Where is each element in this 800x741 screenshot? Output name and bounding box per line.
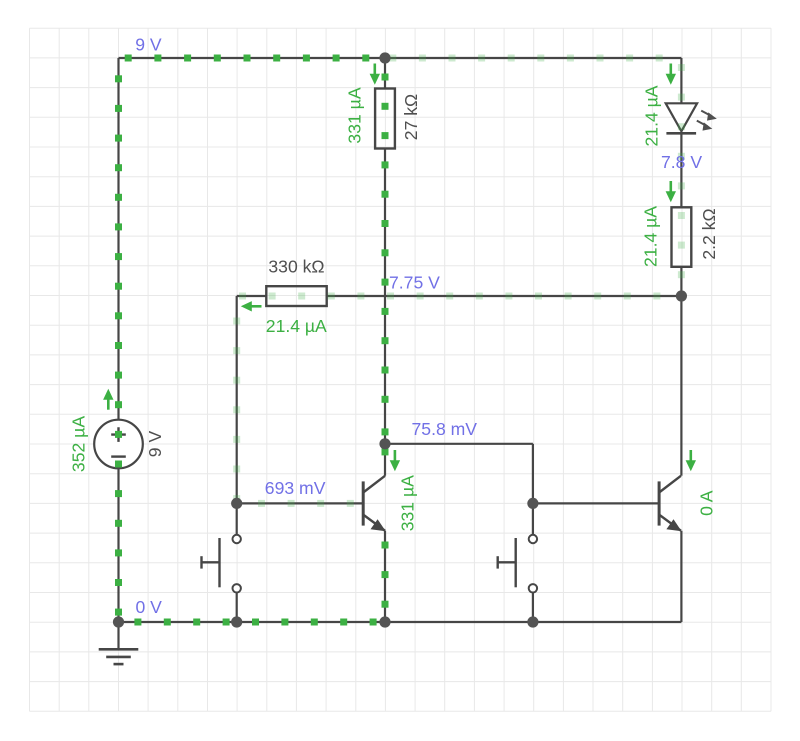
resistor R2 330k body xyxy=(266,286,326,306)
wire switch1 top lead xyxy=(236,503,238,534)
svg-text:21.4 µA: 21.4 µA xyxy=(266,316,327,336)
current arrow into R1 27k (down) xyxy=(370,64,380,85)
wire switch1 bottom lead xyxy=(236,593,238,622)
wire Q1 emitter to bottom rail xyxy=(384,531,386,622)
LED D1 cathode bar xyxy=(666,132,696,135)
svg-text:331 µA: 331 µA xyxy=(345,87,365,143)
wire 75.8mV net vertical to Q2 base node xyxy=(532,444,534,504)
current arrow at Q2 collector (down) xyxy=(686,450,696,471)
node junction top rail / 27k xyxy=(379,52,390,63)
wire 75.8mV net horizontal xyxy=(385,443,533,445)
wire current dots (faint) LED / 2.2k branch xyxy=(678,64,685,278)
wire collector node down to Q1 collector xyxy=(384,444,386,476)
current arrow into R3 2.2k (down) xyxy=(666,181,676,202)
current arrow into LED (down) xyxy=(666,64,676,85)
current arrow through V1 (up) xyxy=(103,389,113,410)
ground symbol xyxy=(117,622,119,649)
wire switch2 top lead xyxy=(532,503,534,534)
node junction ground xyxy=(113,616,124,627)
transistor Q2 (NPN) xyxy=(659,476,682,531)
wire node A down to Q2 collector xyxy=(680,296,682,476)
wire LED cathode to 2.2k xyxy=(680,133,682,207)
wire switch2 bottom lead xyxy=(532,593,534,622)
wire 27k top lead xyxy=(384,58,386,89)
LED D1 triangle xyxy=(666,103,697,131)
node junction 75.8mV / Q1 collector xyxy=(379,438,390,449)
svg-text:693 mV: 693 mV xyxy=(265,478,326,498)
push switch S1 (open) xyxy=(202,535,241,593)
wire current dots (bright) left rail xyxy=(115,75,122,615)
wire bottom rail ground net xyxy=(119,621,682,623)
wire current dots (faint) Q1 base wire xyxy=(258,500,354,507)
wire current dots (faint) top rail right of junction xyxy=(389,55,662,62)
voltage source V1 plus sign xyxy=(111,427,126,442)
voltage source V1 9V circle xyxy=(94,420,143,469)
svg-text:75.8 mV: 75.8 mV xyxy=(412,419,478,439)
svg-text:27 kΩ: 27 kΩ xyxy=(401,94,421,140)
wire LED top lead from top rail xyxy=(680,58,682,103)
wire current dots (faint) 330k net xyxy=(239,293,660,300)
node junction bottom rail / switch2 xyxy=(527,616,538,627)
node junction bottom rail / Q1 emitter xyxy=(379,616,390,627)
resistor R3 2.2k body xyxy=(672,207,692,266)
LED D1 light emission arrow 1 xyxy=(701,111,717,121)
wire left rail lower (source to ground node) xyxy=(117,468,119,622)
node junction Q2 base / switch2 xyxy=(527,498,538,509)
wire Q2 base xyxy=(533,502,659,504)
resistor R1 27k body xyxy=(375,89,395,149)
svg-text:0 V: 0 V xyxy=(136,597,163,617)
svg-text:9 V: 9 V xyxy=(135,34,162,54)
svg-text:21.4 µA: 21.4 µA xyxy=(641,85,661,146)
LED D1 light emission arrow 2 xyxy=(697,121,713,131)
svg-text:9 V: 9 V xyxy=(145,431,165,458)
wire 330k left lead xyxy=(237,295,267,297)
wire left rail upper (9V source to top) xyxy=(117,58,119,420)
current arrow into Q1 collector (down) xyxy=(390,450,400,471)
node A junction 7.75V xyxy=(676,290,687,301)
svg-text:331 µA: 331 µA xyxy=(397,475,417,531)
wire current dots (faint) 330k corner down branch xyxy=(233,318,240,503)
transistor Q1 (NPN) xyxy=(363,476,386,531)
svg-text:0 A: 0 A xyxy=(697,490,717,516)
wire current dots (bright) bottom rail xyxy=(134,619,376,626)
node junction bottom rail / switch1 xyxy=(231,616,242,627)
wire 2.2k bottom lead to node A xyxy=(680,267,682,296)
current arrow out of R2 330k (left) xyxy=(241,301,262,311)
wire top rail 9V xyxy=(119,57,682,59)
svg-text:352 µA: 352 µA xyxy=(69,416,89,472)
wire 330k right lead to node A xyxy=(327,295,682,297)
node junction Q1 base / switch1 xyxy=(231,498,242,509)
svg-text:330 kΩ: 330 kΩ xyxy=(268,257,324,277)
svg-text:21.4 µA: 21.4 µA xyxy=(640,206,660,267)
wire current dots (bright) top rail xyxy=(125,55,370,62)
wire current dots (bright) 27k / Q1 branch xyxy=(382,74,389,608)
svg-text:2.2 kΩ: 2.2 kΩ xyxy=(699,208,719,259)
voltage source V1 minus sign xyxy=(111,455,126,457)
svg-text:7.75 V: 7.75 V xyxy=(389,273,440,293)
wire 27k bottom lead down to collector node xyxy=(384,149,386,444)
wire Q1 base xyxy=(237,502,364,504)
wire Q2 emitter to bottom rail corner xyxy=(680,531,682,622)
wire 330k corner down to Q1 base node xyxy=(236,296,238,503)
svg-text:7.8 V: 7.8 V xyxy=(661,152,702,172)
push switch S2 (open) xyxy=(498,535,537,593)
